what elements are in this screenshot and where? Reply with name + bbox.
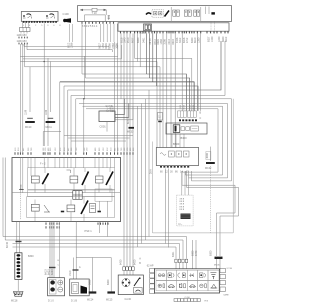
fuse rail PSF1 — [28, 190, 115, 197]
splice label group 2 — [17, 40, 28, 44]
wire stub C p5 — [152, 33, 154, 82]
switch blade K2 — [165, 11, 170, 17]
wire drop bundle v3 — [120, 33, 122, 98]
switch S1 contact — [23, 14, 32, 19]
wire riser PSF1 d — [70, 96, 72, 153]
wire drop boxD t4 — [166, 33, 168, 147]
svg-text:3 6 9 2 5 8 1 4: 3 6 9 2 5 8 1 4 — [82, 25, 98, 28]
svg-text:H B: H B — [205, 300, 209, 302]
svg-text:8019: 8019 — [172, 39, 175, 45]
L2 wire labels — [69, 266, 81, 276]
wire stubs in box B right — [206, 7, 210, 15]
wire drop conn B b4 — [200, 33, 202, 111]
svg-text:6461: 6461 — [172, 251, 175, 257]
box E right labels — [224, 268, 233, 296]
svg-text:1199: 1199 — [25, 109, 28, 115]
relay RL4 contact — [44, 205, 50, 212]
wire bus B2 — [86, 22, 150, 79]
wire labels under box B left — [67, 42, 118, 49]
wire drop boxD t1 — [156, 62, 158, 148]
svg-text:TP--: TP-- — [178, 224, 183, 226]
wire bus A3c — [23, 45, 122, 59]
wire drop conn B b1 — [181, 33, 183, 111]
wire drop bundle v2 — [117, 42, 119, 152]
svg-text:8000: 8000 — [107, 279, 110, 285]
wires box D to TP — [182, 171, 189, 195]
cell pair 3 — [194, 10, 200, 16]
fuse box PSF1 — [12, 158, 121, 222]
wire labels above box E — [172, 250, 213, 257]
svg-text:MC33: MC33 — [127, 131, 134, 134]
dashed actuator component TP — [177, 195, 194, 226]
wire drop conn B b2 — [185, 74, 187, 111]
contact K1 dot — [146, 13, 151, 15]
wire long cross to BB00 — [135, 33, 192, 111]
internal wires PSF1 row2 — [35, 197, 107, 221]
svg-text:1286: 1286 — [71, 42, 74, 48]
relay RL2 blade — [82, 172, 89, 186]
relay RL2 coil — [67, 170, 78, 183]
stair wire E1 — [3, 158, 187, 259]
internal feed wires PSF1 top — [20, 158, 114, 194]
strip wire ticks — [16, 241, 22, 243]
wire riser PSF1 e — [75, 99, 77, 152]
inner relay frame box B — [85, 15, 106, 22]
divider box B — [170, 7, 172, 21]
connector C1 row — [20, 28, 31, 32]
relay RL1 blade — [42, 173, 48, 184]
relay RL1 coil — [31, 176, 39, 183]
battery box BB00 — [166, 123, 207, 134]
plug MP symbol — [14, 292, 24, 297]
svg-text:MC36: MC36 — [214, 264, 220, 266]
wire bus A2 — [27, 44, 113, 52]
wires to L2 — [74, 222, 77, 280]
svg-text:8000: 8000 — [206, 152, 209, 158]
wires BB00 to box D — [172, 134, 184, 148]
svg-text:7 10: 7 10 — [92, 11, 98, 15]
svg-text:6430: 6430 — [120, 259, 123, 265]
wire boxD jog right 1 — [182, 171, 235, 256]
wire bus A1 — [24, 44, 109, 50]
wire boxD pin drop — [167, 169, 169, 248]
ground MC14 — [87, 258, 96, 302]
wire bus A3b branch — [84, 56, 86, 99]
svg-text:1199 1BV: 1199 1BV — [17, 34, 28, 37]
mid rail PSF1 — [12, 192, 121, 194]
wire riser PSF1 a — [59, 82, 61, 152]
pump box L2 — [70, 279, 90, 296]
relay RL4 coil — [31, 204, 39, 211]
stair wire C001-2 — [68, 137, 130, 139]
svg-text:1480: 1480 — [160, 39, 163, 45]
ground MC15 — [106, 258, 115, 302]
wire C001 right 3 — [115, 106, 133, 120]
ignition switch box M — [118, 275, 143, 295]
wire bundle M c — [129, 33, 131, 266]
relay RL3 blade — [106, 172, 113, 186]
svg-text:8027: 8027 — [207, 36, 210, 42]
box D bottom tick row — [160, 166, 191, 168]
svg-text:1280: 1280 — [198, 37, 201, 43]
dashed zone line — [209, 166, 211, 233]
wire bus B5 dark seg — [160, 41, 221, 90]
splice box left of BB00 — [158, 113, 163, 122]
pin tick row under box C — [121, 31, 229, 33]
svg-text:B300: B300 — [181, 136, 188, 140]
svg-text:C: C — [200, 117, 202, 120]
wire bus B3 dark — [60, 82, 194, 111]
wires PSF1 to strip — [17, 222, 20, 253]
svg-text:1430: 1430 — [211, 36, 214, 42]
wire stubs below connector — [21, 32, 27, 34]
interface box C001 — [99, 111, 115, 122]
box D internal cells — [160, 151, 189, 157]
wire bundle E d — [148, 90, 150, 237]
wire pins below switch unit — [23, 21, 29, 27]
component box PSF1 small — [90, 204, 96, 213]
svg-text:3012: 3012 — [179, 37, 182, 43]
svg-text:2# 1B: 2# 1B — [227, 268, 233, 270]
wire bus B4 dark seg — [157, 86, 199, 111]
wire bus A4 — [20, 61, 157, 63]
wire bus B7 — [76, 99, 232, 181]
wire drop boxD t5 — [170, 33, 172, 147]
svg-text:D 1 0: D 1 0 — [48, 300, 54, 303]
svg-text:3186: 3186 — [164, 39, 167, 45]
wire drop boxD t6 — [174, 33, 176, 147]
key icon — [63, 18, 71, 22]
wire bus B1 — [82, 22, 147, 75]
svg-text:3461: 3461 — [143, 37, 146, 43]
svg-text:1199: 1199 — [45, 109, 48, 115]
wires cells to box M — [124, 270, 133, 275]
relay RL5 blade — [81, 201, 88, 215]
PSF1 top pin labels — [15, 147, 135, 151]
svg-text:MC32: MC32 — [205, 167, 212, 170]
cell pair 1 — [173, 10, 180, 16]
svg-text:2712: 2712 — [186, 37, 189, 43]
wire left vertical 3 — [24, 44, 26, 67]
wire boxD jog right 2 — [187, 171, 239, 256]
svg-text:1510: 1510 — [69, 270, 72, 276]
wire bus B4 — [64, 85, 157, 87]
stair wire E3 — [13, 244, 180, 259]
switch unit box top-left — [21, 12, 58, 22]
relay RL5 coil — [67, 205, 75, 212]
inner frame 2 PSF1 — [27, 197, 115, 218]
svg-text:C100: C100 — [63, 12, 70, 16]
ground bar MC10b — [46, 121, 56, 123]
cell pair 2 — [184, 10, 191, 16]
wire boxD pin drop 2 — [165, 169, 167, 244]
connector bar right — [215, 257, 223, 259]
wire C001 right 2 — [115, 104, 129, 118]
wire bundle M a — [123, 33, 125, 266]
wire drop PSF1 h — [47, 58, 49, 146]
wire left vertical to PSF1 — [19, 44, 21, 152]
wire drop PSF1 g — [43, 62, 45, 147]
L1 connector ticks — [49, 267, 56, 269]
wire riser PSF1 b — [63, 86, 65, 152]
junction node on bus B7 — [83, 98, 85, 100]
svg-text:MC11: MC11 — [46, 126, 53, 129]
svg-text:CA 00: CA 00 — [125, 298, 132, 301]
box E icon row 2 — [156, 281, 219, 291]
svg-text:1 4 2 5 3 6 8: 1 4 2 5 3 6 8 — [23, 25, 63, 27]
wire riser PSF1 f — [83, 99, 85, 152]
control unit box B top-right — [78, 6, 232, 22]
inner frame 3 PSF1 — [95, 189, 112, 201]
stair wire C001-3 — [71, 140, 126, 142]
wire drop boxD t3 — [162, 33, 164, 147]
wire stub C p6 — [156, 33, 158, 86]
svg-text:8000: 8000 — [210, 250, 213, 256]
fuse F black mark — [211, 12, 215, 14]
box M connector cells — [123, 267, 135, 271]
svg-text:PSF 1: PSF 1 — [85, 229, 93, 233]
battery connector labels — [180, 104, 195, 109]
battery connector pins group2 — [188, 111, 197, 117]
wire stub C p2 — [139, 33, 141, 66]
wire label inside PSF1 — [19, 183, 24, 189]
wire bundle M d — [132, 33, 134, 266]
zone enclosure right — [153, 99, 234, 233]
bottom pin ticks PSF1 — [46, 223, 108, 229]
L2 connector ticks — [73, 269, 79, 271]
wire left vertical 2 — [22, 44, 24, 152]
wire from switch unit to junction — [43, 23, 45, 61]
wire drop MC10a — [29, 67, 31, 112]
wire drop conn B b3 — [196, 33, 198, 111]
splice tick PSF1 a — [61, 211, 64, 213]
svg-text:MC15: MC15 — [106, 299, 113, 302]
wire labels under box C — [121, 36, 229, 44]
wire C001 down — [106, 122, 108, 132]
svg-text:MC14: MC14 — [87, 299, 94, 302]
svg-text:1199 1BV: 1199 1BV — [17, 40, 28, 43]
relay cell in box C — [144, 24, 152, 31]
wire C001 right 1 — [115, 99, 124, 115]
display panel box E — [155, 269, 220, 293]
wire bus A3 — [20, 45, 117, 56]
svg-text:8000: 8000 — [89, 279, 92, 285]
svg-text:62 HP: 62 HP — [147, 264, 154, 267]
diode strip connector — [15, 253, 22, 280]
svg-text:6420: 6420 — [134, 259, 137, 265]
wire riser PSF1 c — [67, 90, 69, 152]
dimension arrow inside box B — [80, 8, 106, 15]
stair wire E4 — [13, 247, 177, 259]
grid connector CT2 — [73, 191, 82, 200]
divider 2 box B — [200, 7, 202, 21]
svg-text:D 1 B: D 1 B — [71, 300, 77, 303]
svg-text:2210: 2210 — [168, 39, 171, 45]
wire C001 link — [43, 132, 61, 146]
dashed actuator frame — [152, 10, 164, 17]
wire bundle E a — [137, 106, 139, 247]
splice ticks MC10b — [48, 117, 54, 119]
svg-text:BB00: BB00 — [173, 142, 180, 146]
wire stubs box B pins — [69, 24, 117, 42]
wire bundle E c — [145, 99, 147, 240]
switch unit pin strip — [23, 21, 57, 23]
body control box D — [156, 148, 198, 166]
svg-text:64HE: 64HE — [224, 295, 230, 297]
motor box L1 — [48, 278, 65, 296]
svg-text:8612: 8612 — [225, 36, 228, 42]
wire bus B5 — [68, 89, 160, 91]
internal wires PSF1 row1 — [35, 168, 110, 193]
svg-text:6470: 6470 — [195, 250, 198, 256]
connector CA labels above C001 — [106, 105, 116, 113]
inner frame 1 PSF1 — [28, 168, 115, 190]
svg-text:8C31: 8C31 — [127, 118, 130, 124]
wire bus B10 — [86, 109, 218, 172]
stair wire C001-1 — [64, 134, 133, 136]
wires bar to box E — [217, 259, 221, 269]
splice label group 1 — [17, 34, 28, 38]
wire rail to grounds — [76, 257, 111, 259]
switch S2 contact — [46, 14, 55, 19]
wire strip to plug — [17, 279, 19, 291]
dashed stubs above box C left — [211, 21, 215, 33]
wire bus B1 dark seg — [147, 74, 187, 111]
wire drop boxD t2 — [159, 67, 161, 148]
box E right pin cells — [220, 268, 225, 291]
wire bus B2 dark seg — [150, 78, 190, 111]
stair wire E2 — [5, 158, 183, 259]
wire bundle E b — [141, 104, 143, 244]
wires PSF1 to L1 — [50, 222, 59, 278]
svg-text:80 00: 80 00 — [6, 241, 9, 248]
box M wire labels — [120, 259, 137, 265]
PSF1 top pin ticks — [15, 152, 133, 155]
dashed service line PSF1 — [20, 194, 22, 221]
relay RL3 coil — [96, 176, 104, 183]
splice MC33 — [127, 118, 134, 134]
svg-text:MC10: MC10 — [25, 126, 32, 129]
wire bus B9 — [83, 106, 223, 175]
box D pin labels — [150, 169, 190, 174]
svg-text:F + 2: F + 2 — [40, 163, 46, 166]
wire stub C p1 — [137, 33, 139, 61]
box E top connector cells — [175, 259, 188, 262]
BSI box C — [118, 23, 229, 31]
L1 wire labels — [45, 260, 60, 275]
box E bottom tick cells — [174, 299, 200, 302]
pin marks right of inner frame — [108, 16, 110, 21]
junction node on bus A4 — [43, 61, 45, 63]
box E icon row 1 — [156, 270, 219, 280]
coil symbols in dashed frame — [154, 12, 162, 15]
wire bus A5 — [25, 66, 160, 68]
svg-text:C001: C001 — [100, 125, 107, 129]
svg-text:B300: B300 — [28, 255, 34, 258]
svg-text:6A30: 6A30 — [51, 269, 54, 275]
wire stub C p4 — [149, 33, 151, 78]
wire drop MC10b — [49, 62, 51, 113]
wires cells to box E — [176, 240, 196, 269]
svg-text:MC18: MC18 — [11, 300, 18, 303]
wire bundle M b — [126, 33, 128, 266]
battery connector pins group1 — [178, 111, 187, 117]
ground bar MC10a — [25, 121, 35, 123]
wire bus B6 — [71, 41, 225, 96]
box E left pin cells — [150, 268, 155, 293]
splice tick PSF1 b — [98, 211, 101, 213]
svg-text:M 4530: M 4530 — [107, 110, 116, 113]
pin tick row under box B — [82, 22, 114, 24]
battery tick row — [179, 119, 197, 121]
svg-text:26 A: 26 A — [150, 169, 153, 174]
wire bus B8 — [79, 104, 228, 178]
wire stubs below PSF1 — [100, 222, 108, 237]
wire drop bundle v1 — [114, 42, 116, 152]
ground MC32 — [205, 147, 215, 170]
splice ticks MC10a — [27, 117, 33, 119]
wire stub C p3 — [146, 33, 148, 74]
svg-text:1230: 1230 — [218, 36, 221, 42]
